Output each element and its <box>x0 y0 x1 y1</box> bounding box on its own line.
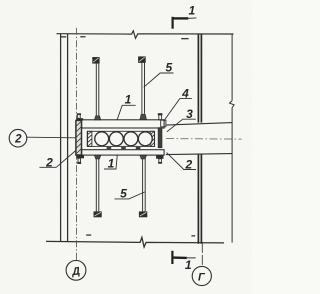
spacer plate left hatched <box>88 131 92 146</box>
tie rod left lower <box>96 159 99 212</box>
column right pair line b <box>200 34 202 244</box>
node 2 circle <box>9 129 27 147</box>
break mark right column <box>230 101 235 108</box>
hidden edge dash c <box>181 38 188 39</box>
wire top chord line with break <box>57 31 234 39</box>
wire bottom chord line with break <box>46 237 224 247</box>
label 4 leader <box>164 99 192 122</box>
axis line D vertical <box>76 28 78 260</box>
wall line left inner <box>67 34 69 242</box>
column right pair line a <box>197 34 199 244</box>
rod nut left above bar <box>94 116 100 120</box>
pipe section 1 <box>95 132 109 146</box>
rod nut right below bar <box>140 155 147 159</box>
rod head left top <box>92 57 99 64</box>
pipe section 4 <box>138 132 152 146</box>
rod nut left below bar <box>94 155 100 159</box>
rod head right top <box>138 56 146 63</box>
pipe section 3 <box>124 132 138 146</box>
wire axis 2 leader <box>27 136 76 139</box>
rod nut right above bar <box>140 114 147 119</box>
section mark 1 bottom <box>172 251 195 264</box>
bolt shank right end <box>158 128 162 148</box>
tie rod right upper <box>142 63 145 114</box>
bolt nut left bottom <box>76 155 84 164</box>
tie rod left upper <box>96 64 99 116</box>
gap shim 1 <box>107 147 112 149</box>
hidden edge dash e <box>191 235 195 236</box>
label 1 top leader <box>117 105 136 120</box>
spacer plate right hatched <box>150 131 154 146</box>
wire axis 2 centerline right <box>166 138 242 141</box>
wall line left outer <box>60 34 62 242</box>
bolt shank left end <box>76 120 82 155</box>
hidden edge dash a <box>61 36 66 37</box>
column right outer line with break <box>231 34 233 243</box>
gap shim 2 <box>121 147 126 149</box>
bolt head left top <box>76 113 83 120</box>
sleeve tube outline <box>87 131 154 146</box>
bolt head right top <box>158 113 166 127</box>
label 5 top leader <box>144 73 174 87</box>
rod head right bottom <box>139 211 147 217</box>
section mark 1 top <box>173 17 197 29</box>
label 3 leader <box>167 119 196 132</box>
top clamp bar <box>82 120 165 128</box>
label 5 bottom leader <box>115 192 145 199</box>
bolt nut right bottom <box>156 155 163 164</box>
gap shim 3 <box>136 147 141 149</box>
bottom clamp bar <box>82 150 165 155</box>
hidden edge dash b <box>80 36 85 37</box>
paper grain overlay <box>0 0 252 294</box>
beam top edge <box>166 123 232 126</box>
beam bottom edge <box>166 154 232 155</box>
label 2 right leader <box>167 153 196 170</box>
rod head left bottom <box>94 211 102 217</box>
node D circle <box>66 260 86 280</box>
tie rod right lower <box>143 159 146 212</box>
hidden edge dash d <box>86 234 91 235</box>
label 1 bottom leader <box>104 155 117 169</box>
label 2 left leader <box>39 150 76 167</box>
axis line G below <box>201 243 203 267</box>
pipe section 2 <box>109 132 123 146</box>
node G circle <box>192 266 211 285</box>
